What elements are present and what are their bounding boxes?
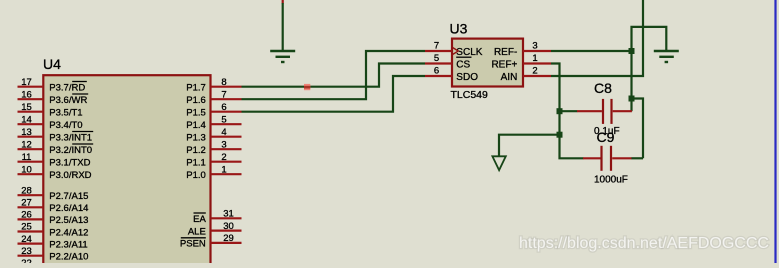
U4 pin 16 stub [18,98,44,100]
svg-text:C9: C9 [597,129,615,145]
svg-text:P2.5/A13: P2.5/A13 [49,215,88,226]
U4 pin 25 stub [18,230,44,232]
node junction at C8 left [557,108,563,114]
red origin marker on P1.7 wire [304,84,310,90]
wire P1.6 to SCLK [242,51,426,99]
svg-text:P2.6/A14: P2.6/A14 [49,203,88,214]
svg-text:P1.3: P1.3 [186,133,206,144]
U4 pin 24 stub [18,243,44,245]
svg-text:P3.2/INT0: P3.2/INT0 [49,145,92,156]
U4 pin 12 stub [18,148,44,150]
mcu U4 body [43,75,210,268]
svg-text:3: 3 [532,40,537,51]
svg-text:P3.6/WR: P3.6/WR [49,95,87,106]
capacitor C9 left lead [583,157,601,159]
svg-text:P2.7/A15: P2.7/A15 [49,191,88,202]
U4 pin 26 stub [18,218,44,220]
U4 pin 30 stub [211,230,242,232]
U4 pin 10 stub [18,173,44,175]
wire C8 left lead [560,110,578,112]
svg-text:31: 31 [223,209,234,220]
overline RD [72,81,87,83]
U4 pin 15 stub [18,111,44,113]
svg-text:1: 1 [532,53,537,64]
node junction at arrow wire [557,132,563,138]
svg-text:C8: C8 [594,80,612,96]
svg-text:23: 23 [21,246,32,257]
U4 pin 29 stub [211,242,242,244]
svg-text:P2.3/A11: P2.3/A11 [49,239,87,250]
svg-text:26: 26 [21,210,32,221]
U3 SCLK clock symbol [453,48,458,55]
svg-text:SCLK: SCLK [456,47,482,58]
svg-text:REF-: REF- [494,47,517,58]
svg-text:17: 17 [21,77,32,88]
capacitor C9 right lead [612,157,631,159]
svg-text:10: 10 [21,164,32,175]
U3 pin 3 stub [523,50,551,52]
U4 pin 27 stub [18,206,44,208]
capacitor C8 plates [603,99,612,124]
svg-text:7: 7 [434,40,439,51]
overline WR [72,93,88,95]
wire junction down to C8 right [630,51,632,111]
svg-text:P3.1/TXD: P3.1/TXD [49,158,90,169]
svg-text:P2.4/A12: P2.4/A12 [49,227,88,238]
svg-text:P3.5/T1: P3.5/T1 [49,108,82,119]
svg-text:AIN: AIN [501,72,518,83]
svg-text:P1.5: P1.5 [186,108,206,119]
input arrow head [492,156,505,170]
U4 pin 8 stub [211,86,242,88]
svg-text:P1.4: P1.4 [186,120,206,131]
svg-text:24: 24 [21,234,32,245]
U4 pin 23 stub [18,255,44,257]
U4 pin 1 stub [211,173,242,175]
svg-text:27: 27 [21,198,32,209]
svg-text:3: 3 [221,139,226,150]
U3 pin 6 stub [425,75,452,77]
U4 pin 6 stub [211,111,242,113]
svg-text:4: 4 [221,127,226,138]
svg-text:1000uF: 1000uF [594,175,628,186]
capacitor C8 left lead [577,110,602,112]
wire P1.5 to SDO [242,76,426,112]
U4 pin 3 stub [211,148,242,150]
svg-text:1: 1 [221,164,226,175]
svg-text:2: 2 [532,65,537,76]
svg-text:https://blog.csdn.net/AEFDOGCC: https://blog.csdn.net/AEFDOGCCC [519,235,769,252]
capacitor C8 right lead [613,110,632,112]
svg-text:P1.7: P1.7 [186,83,206,94]
svg-text:29: 29 [223,233,234,244]
svg-text:P3.7/RD: P3.7/RD [49,83,85,94]
wire AIN from sheet top [551,0,643,76]
svg-text:U4: U4 [43,56,61,72]
svg-text:P3.0/RXD: P3.0/RXD [49,170,91,181]
ground symbol (top centre) [270,51,295,62]
svg-text:14: 14 [21,114,32,125]
U4 pin 4 stub [211,136,242,138]
node junction REF- net [629,48,635,54]
svg-text:5: 5 [434,53,439,64]
U4 pin 11 stub [18,161,44,163]
svg-text:P1.2: P1.2 [186,145,206,156]
wire C9 right lead green [631,157,643,159]
U3 pin 2 stub [523,75,551,77]
svg-text:P3.4/T0: P3.4/T0 [49,120,82,131]
svg-text:SDO: SDO [456,72,478,83]
U4 pin 2 stub [211,161,242,163]
svg-text:EA: EA [193,214,206,225]
U4 pin 7 stub [211,98,242,100]
svg-text:25: 25 [21,222,32,233]
wire to input arrow [499,135,560,157]
svg-text:11: 11 [22,152,32,163]
svg-text:PSEN: PSEN [180,239,206,250]
svg-text:28: 28 [21,185,32,196]
U4 pin 17 stub [18,86,44,88]
svg-text:22: 22 [21,258,32,263]
wire P1.7 to CS [242,64,426,87]
U4 pin 13 stub [18,136,44,138]
svg-text:13: 13 [21,127,32,138]
overline INT0 [72,143,93,145]
U3 pin 5 stub [425,62,452,64]
U3 pin 7 stub [425,50,452,52]
U4 pin 28 stub [18,194,44,196]
svg-text:15: 15 [21,102,32,113]
U3 pin 1 stub [523,62,551,64]
svg-text:TLC549: TLC549 [451,89,489,101]
wire jog to C9 right [632,99,644,159]
svg-text:30: 30 [223,221,234,232]
svg-text:P2.2/A10: P2.2/A10 [49,252,88,263]
svg-text:6: 6 [434,65,439,76]
svg-text:REF+: REF+ [491,59,517,70]
svg-text:7: 7 [221,89,226,100]
wire junction up and over to ground [632,27,667,51]
U4 pin 14 stub [18,123,44,125]
svg-text:ALE: ALE [188,226,206,237]
wire REF- to junction [551,50,632,52]
svg-text:P3.3/INT1: P3.3/INT1 [49,133,92,144]
svg-text:2: 2 [221,152,226,163]
U4 pin 31 stub [211,217,242,219]
overline CS [456,56,471,58]
ground symbol (right) [654,51,679,62]
capacitor C9 plates [602,146,612,171]
node junction at C8 column [629,96,635,102]
svg-text:U3: U3 [450,21,468,37]
wire to ground (top centre) [282,0,284,51]
svg-text:5: 5 [221,114,226,125]
svg-text:CS: CS [456,59,470,70]
svg-text:12: 12 [21,139,32,150]
svg-text:6: 6 [221,102,226,113]
overline INT1 [72,131,93,133]
svg-text:8: 8 [221,77,226,88]
wire REF+ down left column [551,64,583,159]
overline EA [194,212,206,214]
svg-text:P1.6: P1.6 [186,95,206,106]
U4 pin 5 stub [211,123,242,125]
svg-text:P1.1: P1.1 [186,158,206,169]
adc U3 body [452,39,523,87]
sheet border (blue) [774,0,776,263]
svg-text:16: 16 [21,89,32,100]
overline PSEN [181,237,206,239]
svg-text:P1.0: P1.0 [186,170,206,181]
